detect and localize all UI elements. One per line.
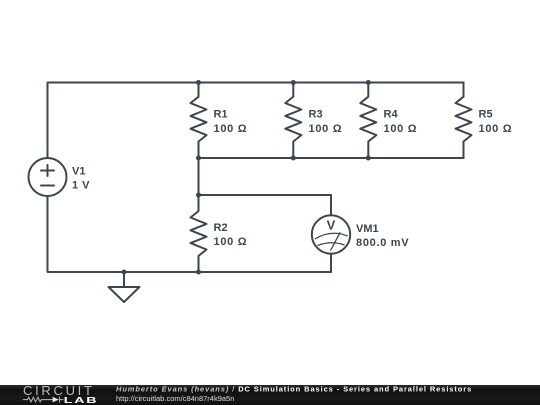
svg-text:http://circuitlab.com/c84n87r4: http://circuitlab.com/c84n87r4k9a5n	[116, 394, 234, 403]
svg-text:100 Ω: 100 Ω	[384, 123, 418, 135]
svg-text:V1: V1	[72, 165, 85, 177]
svg-text:800.0 mV: 800.0 mV	[356, 237, 409, 249]
svg-text:R1: R1	[214, 109, 228, 121]
svg-text:R4: R4	[384, 109, 399, 121]
svg-text:100 Ω: 100 Ω	[309, 123, 343, 135]
svg-text:R2: R2	[214, 222, 228, 234]
svg-text:VM1: VM1	[356, 223, 379, 235]
svg-text:Humberto Evans (hevans) / DC S: Humberto Evans (hevans) / DC Simulation …	[116, 384, 472, 393]
svg-text:100 Ω: 100 Ω	[479, 123, 513, 135]
svg-text:100 Ω: 100 Ω	[214, 123, 248, 135]
svg-text:R3: R3	[309, 109, 323, 121]
svg-text:V: V	[327, 218, 336, 233]
svg-text:100 Ω: 100 Ω	[214, 236, 248, 248]
svg-text:LAB: LAB	[64, 397, 99, 405]
svg-text:R5: R5	[479, 109, 493, 121]
svg-text:1 V: 1 V	[72, 180, 90, 192]
